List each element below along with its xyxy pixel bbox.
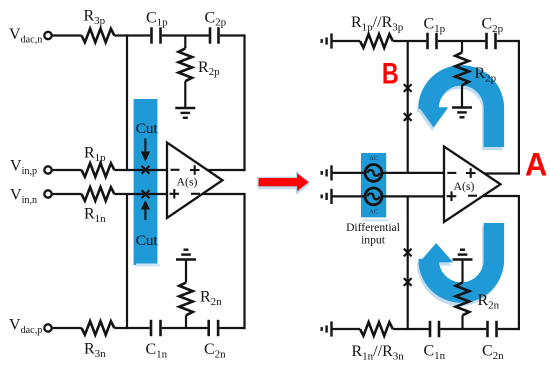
wire C1n to C2n <box>162 327 208 329</box>
wire R1n//R3n to C1n right <box>393 328 429 330</box>
wire node A vertical <box>407 196 409 330</box>
cut label top <box>136 120 159 137</box>
svg-text:A: A <box>525 147 547 183</box>
cut label bottom <box>136 232 159 249</box>
label R2p <box>198 59 220 78</box>
svg-text:Cut: Cut <box>136 120 159 137</box>
wire op-amp out top stub <box>207 169 245 171</box>
label C1p right <box>424 16 446 35</box>
cut highlight bar <box>134 99 160 267</box>
label R1n//R3n <box>352 343 405 362</box>
resistor R1p//R3p <box>360 34 393 48</box>
cut arrow up <box>141 200 150 220</box>
op-amp U2 gain label A(s) <box>454 179 475 193</box>
wire C1n to C2n right <box>440 328 486 330</box>
capacitor C2n <box>209 320 218 336</box>
svg-text:input: input <box>361 233 386 246</box>
capacitor C2p right <box>487 33 496 49</box>
label C2n right <box>482 342 504 361</box>
label Vdac,n <box>9 26 42 45</box>
op-amp U1 plus output sign <box>190 165 200 175</box>
wire C1p to C2p <box>162 34 209 36</box>
label R3p <box>84 8 106 27</box>
resistor R2p right <box>455 52 469 85</box>
svg-text:A(s): A(s) <box>177 174 198 188</box>
open mark X 3 <box>404 249 412 257</box>
svg-text:AC: AC <box>369 155 378 162</box>
feedback loop arrow top <box>419 75 494 147</box>
op-amp U1 <box>167 143 223 219</box>
label C1n right <box>424 342 446 361</box>
wire R1p//R3p to C1p <box>393 40 427 42</box>
op-amp U1 minus output sign <box>191 193 200 195</box>
terminal Vdac,p <box>44 324 51 331</box>
wire R2n right to ground above <box>461 260 463 283</box>
label C1n <box>146 341 168 360</box>
wire R2p right to ground <box>461 85 463 107</box>
label B <box>382 57 399 90</box>
ground below R2p <box>175 108 195 118</box>
label R1n <box>84 206 106 225</box>
label C2p right <box>482 16 504 35</box>
wire Vdac,p to R3n <box>52 327 82 329</box>
op-amp U1 gain label A(s) <box>177 174 198 188</box>
label R1p//R3p <box>351 14 404 33</box>
resistor R2n <box>179 283 193 316</box>
wire R3p to C1p <box>114 34 150 36</box>
wire R1p to op-amp <box>114 169 167 171</box>
label AC bottom <box>369 209 378 216</box>
wire node to R2n right <box>461 315 463 329</box>
open mark X 4 <box>404 278 412 286</box>
label C1p <box>146 9 168 28</box>
label C2n <box>204 341 226 360</box>
capacitor C1p right <box>428 33 437 49</box>
wire gnd to R1p//R3p <box>332 40 361 42</box>
label R2n <box>200 289 222 308</box>
red transform arrow <box>258 172 310 195</box>
label A <box>525 147 547 183</box>
feedback loop arrow bottom (shadow) <box>418 226 493 296</box>
resistor R1n <box>82 187 115 201</box>
label R3n <box>84 341 106 360</box>
wire feedback right vertical bottom 2 <box>518 196 520 330</box>
wire feedback left vertical top <box>126 34 128 170</box>
capacitor C2n right <box>488 321 497 337</box>
feedback loop arrow bottom <box>419 223 494 293</box>
ground at top AC input <box>322 165 332 180</box>
terminal Vin,p <box>44 166 51 173</box>
resistor R2p <box>179 48 193 81</box>
capacitor C1n right <box>430 321 439 337</box>
label R2p right <box>475 65 497 84</box>
wire node bottom to R2n <box>185 315 187 328</box>
label differential input <box>346 221 400 247</box>
wire R1n to op-amp <box>114 193 167 195</box>
wire gnd to R1n//R3n <box>332 328 361 330</box>
wire op-amp2 out top stub <box>485 172 521 174</box>
label R2n right <box>478 292 500 311</box>
wire top AC input right <box>383 172 444 174</box>
op-amp U1 plus input <box>170 189 180 199</box>
wire bottom AC input left <box>332 195 365 197</box>
ground at R1p//R3p input <box>322 33 332 48</box>
feedback loop arrow top (shadow) <box>418 79 493 151</box>
resistor R3n <box>82 321 115 335</box>
ground below R2p right <box>452 108 472 118</box>
wire Vin,n to R1n <box>52 193 82 195</box>
svg-text:Differential: Differential <box>346 221 400 234</box>
label AC top <box>369 155 378 162</box>
wire op-amp2 out bottom stub <box>483 195 520 197</box>
resistor R2n right <box>456 283 470 316</box>
open mark X 2 <box>404 113 412 121</box>
op-amp U2 minus output sign <box>468 195 477 197</box>
terminal Vin,n <box>44 190 51 197</box>
cut arrow down <box>141 139 150 162</box>
wire feedback right vertical top <box>243 36 245 172</box>
capacitor C2p <box>210 27 219 43</box>
wire Vdac,n to R3p <box>52 34 82 36</box>
resistor R1n//R3n <box>360 322 393 336</box>
svg-text:A(s): A(s) <box>454 179 475 193</box>
wire C2n to corner right bottom <box>498 328 520 330</box>
wire bottom AC input right <box>383 195 444 197</box>
wire op-amp out bottom stub <box>202 193 245 195</box>
cut mark X bottom <box>142 190 150 198</box>
wire top AC input left <box>332 172 365 174</box>
label R1p <box>84 145 106 164</box>
op-amp U2 plus input <box>447 191 457 201</box>
AC source bottom <box>365 188 382 205</box>
ground above R2n <box>176 250 196 260</box>
wire R2p to ground <box>184 81 186 108</box>
wire R3n to C1n <box>114 327 150 329</box>
capacitor C1n <box>151 320 161 336</box>
wire node B vertical <box>407 41 409 173</box>
op-amp U2 <box>444 147 501 223</box>
label Vdac,p <box>9 317 42 336</box>
label C2p <box>205 9 227 28</box>
ground at R1n//R3n input <box>322 321 332 336</box>
wire R2n to ground above <box>185 260 187 283</box>
capacitor C1p <box>152 27 161 43</box>
label Vin,n <box>10 187 37 206</box>
wire feedback left vertical bottom <box>126 194 128 329</box>
wire node top to R2p <box>184 36 186 49</box>
terminal Vdac,n <box>44 32 51 39</box>
label Vin,p <box>10 158 37 177</box>
wire C2n to output corner bottom <box>219 327 245 329</box>
svg-text:Cut: Cut <box>136 232 159 249</box>
AC sources highlight box <box>361 153 388 222</box>
op-amp U2 minus input <box>447 172 456 174</box>
wire C1p to C2p right <box>438 40 486 42</box>
wire feedback right vertical top 2 <box>518 41 520 175</box>
wire Vin,p to R1p <box>52 169 82 171</box>
wire C2p to output corner <box>220 34 246 36</box>
resistor R1p <box>82 163 115 177</box>
ground at bottom AC input <box>322 189 332 204</box>
wire feedback right vertical bottom <box>243 194 245 329</box>
wire node to R2p right <box>461 41 463 52</box>
resistor R3p <box>82 29 115 43</box>
open mark X 1 <box>404 84 412 92</box>
svg-text:B: B <box>382 57 399 90</box>
ground above R2n right <box>453 250 473 260</box>
op-amp U1 minus input <box>171 169 180 171</box>
cut mark X top <box>142 166 150 174</box>
svg-text:AC: AC <box>369 209 378 216</box>
wire C2p to corner right top <box>497 40 520 42</box>
AC source top <box>365 165 382 182</box>
op-amp U2 plus output sign <box>466 168 476 178</box>
